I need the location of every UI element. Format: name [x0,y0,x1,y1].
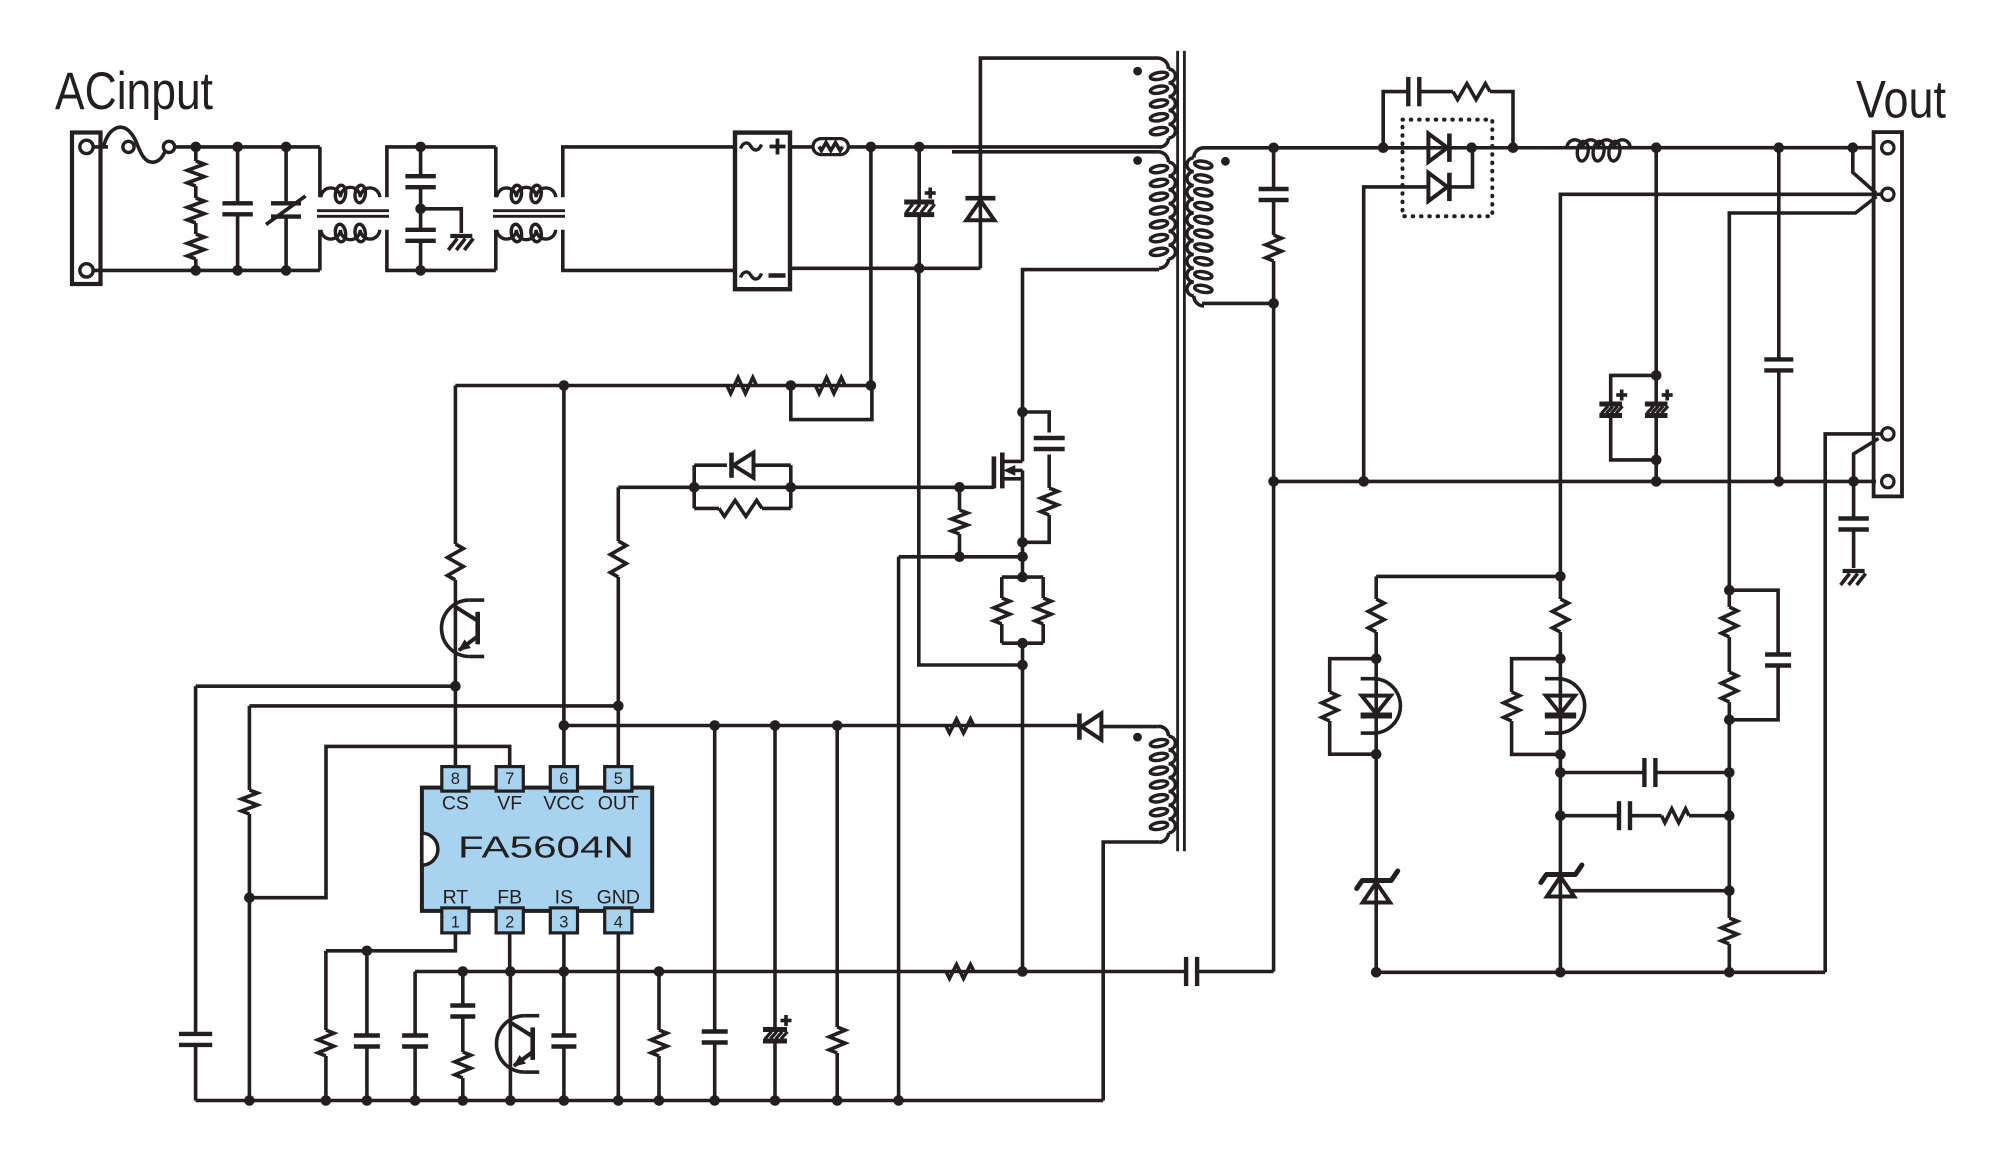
junction [1724,967,1735,978]
wire left column 2 [248,706,252,790]
junction [1848,142,1859,153]
junction [786,380,797,391]
junction [1268,476,1279,487]
wire sense+ line [1560,194,1881,576]
wire sense- line [1825,434,1882,972]
junction [415,265,426,276]
opto1 series resistor R18 [1368,576,1384,658]
feedforward resistor R9 [241,790,257,814]
junction [559,966,570,977]
bleeder resistor chain R1 [187,147,204,271]
junction [1555,749,1566,760]
junction [1774,142,1785,153]
svg-text:4: 4 [614,913,623,931]
zener diode ZD1 [1357,871,1398,972]
wire MOSFET source [1021,470,1025,577]
svg-text:GND: GND [597,887,640,909]
transformer T1 core [1178,51,1185,851]
junction [1017,660,1028,671]
IS series resistor R14 [946,965,974,979]
wire [563,230,735,271]
wire FB pin [508,933,512,972]
junction [1371,653,1382,664]
phase dot primary winding [1133,156,1142,165]
wire reference [1570,889,1729,893]
junction [559,1095,570,1106]
wire DC bus- [790,266,980,270]
wire startup row [455,384,871,388]
wire sense- jog [1854,439,1879,482]
wire startup loop [791,386,872,420]
output capacitor C16 (electrolytic) [1645,375,1673,460]
wire DC bus+ from bridge [790,145,813,149]
wire VCC feed [562,386,566,767]
svg-text:VCC: VCC [543,793,584,815]
junction [1651,370,1662,381]
snubber resistor R17 [1453,84,1513,148]
wire [318,147,322,197]
svg-text:1: 1 [451,913,460,931]
Vout connector J2 [1874,132,1902,496]
current sense resistor R5a [994,577,1043,643]
junction [362,1095,373,1106]
junction [1017,572,1028,583]
snubber capacitor C5 [1023,412,1065,488]
dual rectifier dashed outline [1403,120,1493,217]
wire secondary rail [1202,146,1873,150]
wire IS pin [562,933,566,972]
svg-text:2: 2 [505,913,514,931]
junction [559,720,570,731]
svg-text:FB: FB [497,887,522,909]
junction [1268,143,1279,154]
junction [1017,966,1028,977]
junction [1651,476,1662,487]
phase dot clamp winding [1133,67,1142,76]
transformer auxiliary winding [1150,726,1176,842]
capacitor C6 [179,1027,212,1101]
inrush thermistor TH1 [813,139,848,155]
junction [832,1095,843,1106]
wire [387,230,496,271]
wire [1374,754,1378,878]
primary Y-capacitor C11 [1186,957,1197,986]
junction [321,1095,332,1106]
RT resistor R11 [318,951,334,1101]
wire [1559,754,1563,878]
wire CS branch [454,386,458,545]
snubber capacitor C14 [1383,77,1453,148]
wire sense divider line [1729,197,1876,591]
junction [281,142,292,153]
X-capacitor C1 [222,147,252,271]
wire source rail [899,555,1023,559]
junction [559,380,570,391]
wire RT pin [326,933,456,951]
divider resistor R24 [1721,648,1737,720]
wire row to CS pin [196,684,456,688]
bulk capacitor C4 (electrolytic) [904,147,936,268]
wire [318,230,322,271]
junction [709,720,720,731]
bridge rectifier BR1 [735,133,790,290]
wire row to OUT [249,704,618,708]
junction [770,720,781,731]
capacitor C8 [402,972,428,1101]
wire VCC aux row [564,724,1080,728]
junction [1848,476,1859,487]
divider parallel capacitor C21 [1729,590,1791,720]
capacitor C12 [702,726,728,1101]
snubber resistor R2 [1023,488,1058,542]
wire [494,230,498,271]
wire to output caps [1654,148,1658,376]
output capacitor C15 (electrolytic) [1599,375,1656,460]
common-mode choke L1 bottom winding [321,224,380,243]
junction [654,1095,665,1106]
opto1 parallel resistor R19 [1322,659,1377,755]
optocoupler PC2 LED [1545,659,1585,755]
phase dot auxiliary winding [1133,733,1142,742]
junction [1774,476,1785,487]
startup resistor R7 [816,378,846,394]
wire DC bus+ [848,145,1162,149]
wire [563,147,735,197]
RT capacitor C7 [354,951,380,1101]
junction [244,892,255,903]
svg-text:FA5604N: FA5604N [458,831,634,865]
junction [1371,967,1382,978]
phase dot secondary winding [1221,157,1230,166]
wire primary top [952,150,1158,154]
wire IS row [415,970,1185,974]
wire output ground rail [1274,480,1876,484]
power MOSFET Q1 [994,453,1023,489]
junction [232,142,243,153]
junction [362,946,373,957]
wire [454,580,458,767]
junction [954,552,965,563]
junction [458,1095,469,1106]
junction [232,265,243,276]
wire left column 1 [194,686,198,1027]
junction [191,265,202,276]
junction [1555,810,1566,821]
svg-text:5: 5 [614,770,623,788]
svg-text:8: 8 [451,770,460,788]
divider lower resistor R25 [1721,891,1737,973]
VCC capacitor C13 (electrolytic) [763,726,792,1101]
wire [1728,720,1732,891]
earth ground [448,236,473,250]
junction [1651,455,1662,466]
junction [1724,885,1735,896]
junction [1017,638,1028,649]
wire GND pin [616,933,620,1101]
rectifier diode D5 [1364,148,1473,482]
wire primary ground rail [196,1099,1104,1103]
junction [866,142,877,153]
junction [191,142,202,153]
junction [244,1095,255,1106]
junction [1555,653,1566,664]
junction [450,681,461,692]
junction [1017,407,1028,418]
current sense resistor R5b [1002,577,1051,643]
phototransistor PC1 (CS side) [442,600,485,656]
wire [494,147,498,197]
wire Y-cap midpoint to ground [421,209,462,233]
junction [914,142,925,153]
gate resistor R3 [694,500,791,516]
wire clamp branch [979,221,983,268]
wire AC line top [93,145,108,149]
junction [1555,767,1566,778]
output capacitor C17 [1764,148,1793,482]
junction [893,1095,904,1106]
FB filter resistor R12 [455,1052,471,1101]
junction [1555,967,1566,978]
junction [1268,298,1279,309]
IS resistor R13 [651,972,667,1101]
wire AC line bottom [93,269,320,273]
svg-text:7: 7 [505,770,514,788]
wire VF link [249,746,509,897]
svg-text:OUT: OUT [598,793,639,815]
junction [1466,142,1477,153]
phototransistor PC2 (FB side) [497,1016,540,1072]
wire feedback ground rail [1376,970,1825,974]
clamp diode D1 [965,198,995,220]
wire Vout+ jog [1853,148,1876,193]
OUT series resistor R10 [610,487,626,766]
VCC series resistor R16 [946,719,974,733]
junction [832,720,843,731]
wire VCC aux row [1101,725,1157,729]
label ACinput [55,62,213,121]
junction [786,482,797,493]
junction [415,142,426,153]
label Vout [1856,71,1946,130]
transformer primary winding [1150,152,1176,270]
svg-text:6: 6 [559,770,568,788]
svg-text:ACinput: ACinput [55,62,213,121]
junction [1371,749,1382,760]
svg-text:IS: IS [555,887,573,909]
FB filter capacitor C9 [450,972,475,1053]
IC U1 FA5604N [422,767,652,933]
svg-text:RT: RT [443,887,469,909]
junction [954,482,965,493]
gate diode D2 [694,453,791,509]
wire [387,147,496,197]
shunt regulator U2 (TL431) [1541,865,1582,972]
opto2 parallel resistor R21 [1504,659,1561,755]
junction [1017,552,1028,563]
wire CS return [919,268,1023,665]
wire clamp branch [980,58,1157,198]
common-mode choke L2 bottom winding [497,224,556,243]
wire IS row right [1272,303,1276,971]
junction [914,263,925,274]
svg-text:Vout: Vout [1856,71,1946,130]
varistor RV1 [266,147,306,271]
resistor R15 [829,726,845,1101]
junction [866,380,877,391]
wire fuse to filter [175,145,320,149]
svg-text:CS: CS [442,793,469,815]
chassis ground [1841,571,1866,585]
Y-capacitor C3 [405,209,435,271]
rectifier diode D4 [1428,134,1449,162]
junction [1017,537,1028,548]
choke L2 core [493,211,565,217]
wire aux return [1103,842,1159,1101]
junction [709,1095,720,1106]
junction [505,1095,516,1106]
junction [613,701,624,712]
divider resistor R23 [1721,590,1737,648]
AC input connector J1 [72,133,101,285]
wire startup feed [869,147,873,386]
junction [1724,767,1735,778]
junction [1651,142,1662,153]
opto2 series resistor R20 [1552,576,1568,658]
junction [415,204,426,215]
junction [1724,585,1735,596]
wire primary bottom [1023,270,1160,462]
junction [1508,142,1519,153]
junction [1724,810,1735,821]
wire [1021,643,1025,971]
wire FB to ground [509,972,513,1101]
feedback resistor R22 [1662,809,1730,823]
junction [613,1095,624,1106]
junction [458,966,469,977]
wire IS row [1198,970,1274,974]
resistor R8 [447,544,463,580]
fuse F1 [104,127,175,162]
IS capacitor C10 [551,972,576,1101]
startup resistor R6 [727,378,757,394]
svg-text:3: 3 [559,913,568,931]
wire opto1 top [1376,575,1560,579]
junction [689,482,700,493]
junction [1555,571,1566,582]
transformer secondary winding [1187,148,1213,306]
secondary RC damper [1259,148,1289,304]
gate pulldown resistor R4 [952,487,968,557]
wire [248,814,252,1101]
Y-capacitor C2 [405,147,435,209]
output inductor L3 [1567,140,1630,162]
feedback capacitor C20 [1560,801,1661,830]
common-mode choke L1 top winding [321,185,380,204]
junction [1358,476,1369,487]
wire [1654,460,1658,482]
choke L1 core [317,211,389,217]
junction [770,1095,781,1106]
transformer clamp winding [1150,58,1176,147]
ground capacitor C18 [1838,481,1868,568]
junction [505,966,516,977]
junction [410,1095,421,1106]
junction [654,966,665,977]
VCC rectifier diode D3 [1079,713,1101,739]
junction [1724,715,1735,726]
wire to primary ground [897,557,901,1101]
svg-text:VF: VF [497,793,522,815]
wire secondary bottom [1202,302,1274,306]
optocoupler PC1 LED [1361,659,1401,755]
common-mode choke L2 top winding [497,185,556,204]
feedback capacitor C19 [1560,758,1729,787]
junction [281,265,292,276]
junction [1378,142,1389,153]
wire gate row [618,485,994,489]
